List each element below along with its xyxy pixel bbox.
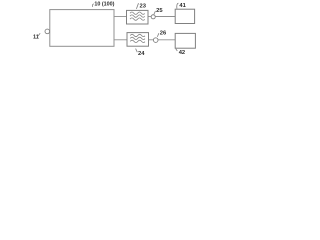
svg-text:23: 23 (140, 4, 147, 10)
svg-text:10 (100): 10 (100) (94, 2, 114, 8)
svg-text:41: 41 (179, 3, 186, 9)
svg-text:24: 24 (138, 51, 145, 57)
svg-text:25: 25 (156, 8, 163, 14)
svg-text:26: 26 (160, 31, 167, 37)
svg-text:42: 42 (179, 50, 185, 56)
